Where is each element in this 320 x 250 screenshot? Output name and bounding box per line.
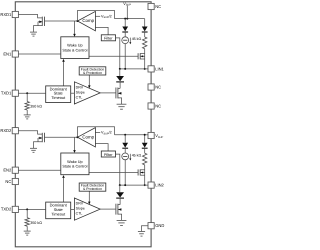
svg-text:CTL: CTL: [76, 212, 83, 216]
svg-text:Slope: Slope: [76, 207, 85, 211]
svg-text:EN2: EN2: [3, 168, 12, 173]
svg-text:350 kΩ: 350 kΩ: [30, 105, 42, 109]
svg-text:NC: NC: [155, 85, 161, 90]
svg-text:Comp: Comp: [82, 134, 94, 139]
svg-text:EN1: EN1: [3, 51, 12, 56]
svg-text:NC: NC: [5, 179, 11, 184]
svg-text:CTL: CTL: [76, 95, 83, 99]
svg-text:State & Control: State & Control: [62, 48, 87, 52]
svg-text:RXD1: RXD1: [0, 12, 12, 17]
svg-text:Timeout: Timeout: [51, 211, 66, 216]
svg-text:State & Control: State & Control: [62, 165, 87, 169]
svg-text:DRV: DRV: [76, 85, 84, 89]
svg-text:LIN1: LIN1: [155, 66, 164, 71]
svg-text:350 kΩ: 350 kΩ: [30, 221, 42, 225]
svg-text:Wake Up: Wake Up: [67, 160, 82, 164]
svg-text:Wake Up: Wake Up: [67, 44, 82, 48]
svg-text:GND: GND: [155, 223, 164, 228]
svg-text:& Protection: & Protection: [83, 187, 102, 191]
svg-text:Filter: Filter: [104, 37, 113, 41]
svg-text:Filter: Filter: [104, 153, 113, 157]
svg-text:Comp: Comp: [82, 18, 94, 23]
svg-text:& Protection: & Protection: [83, 71, 102, 75]
svg-text:NC: NC: [155, 4, 161, 9]
svg-text:DRV: DRV: [76, 202, 84, 206]
svg-text:RXD2: RXD2: [0, 128, 12, 133]
svg-text:TXD1: TXD1: [1, 91, 12, 96]
svg-text:45 kΩ: 45 kΩ: [132, 153, 142, 157]
svg-text:LIN2: LIN2: [155, 183, 164, 188]
svg-text:NC: NC: [155, 104, 161, 109]
svg-text:Slope: Slope: [76, 90, 85, 94]
svg-text:TXD2: TXD2: [1, 207, 12, 212]
svg-text:Timeout: Timeout: [51, 95, 66, 100]
svg-text:45 kΩ: 45 kΩ: [132, 37, 142, 41]
